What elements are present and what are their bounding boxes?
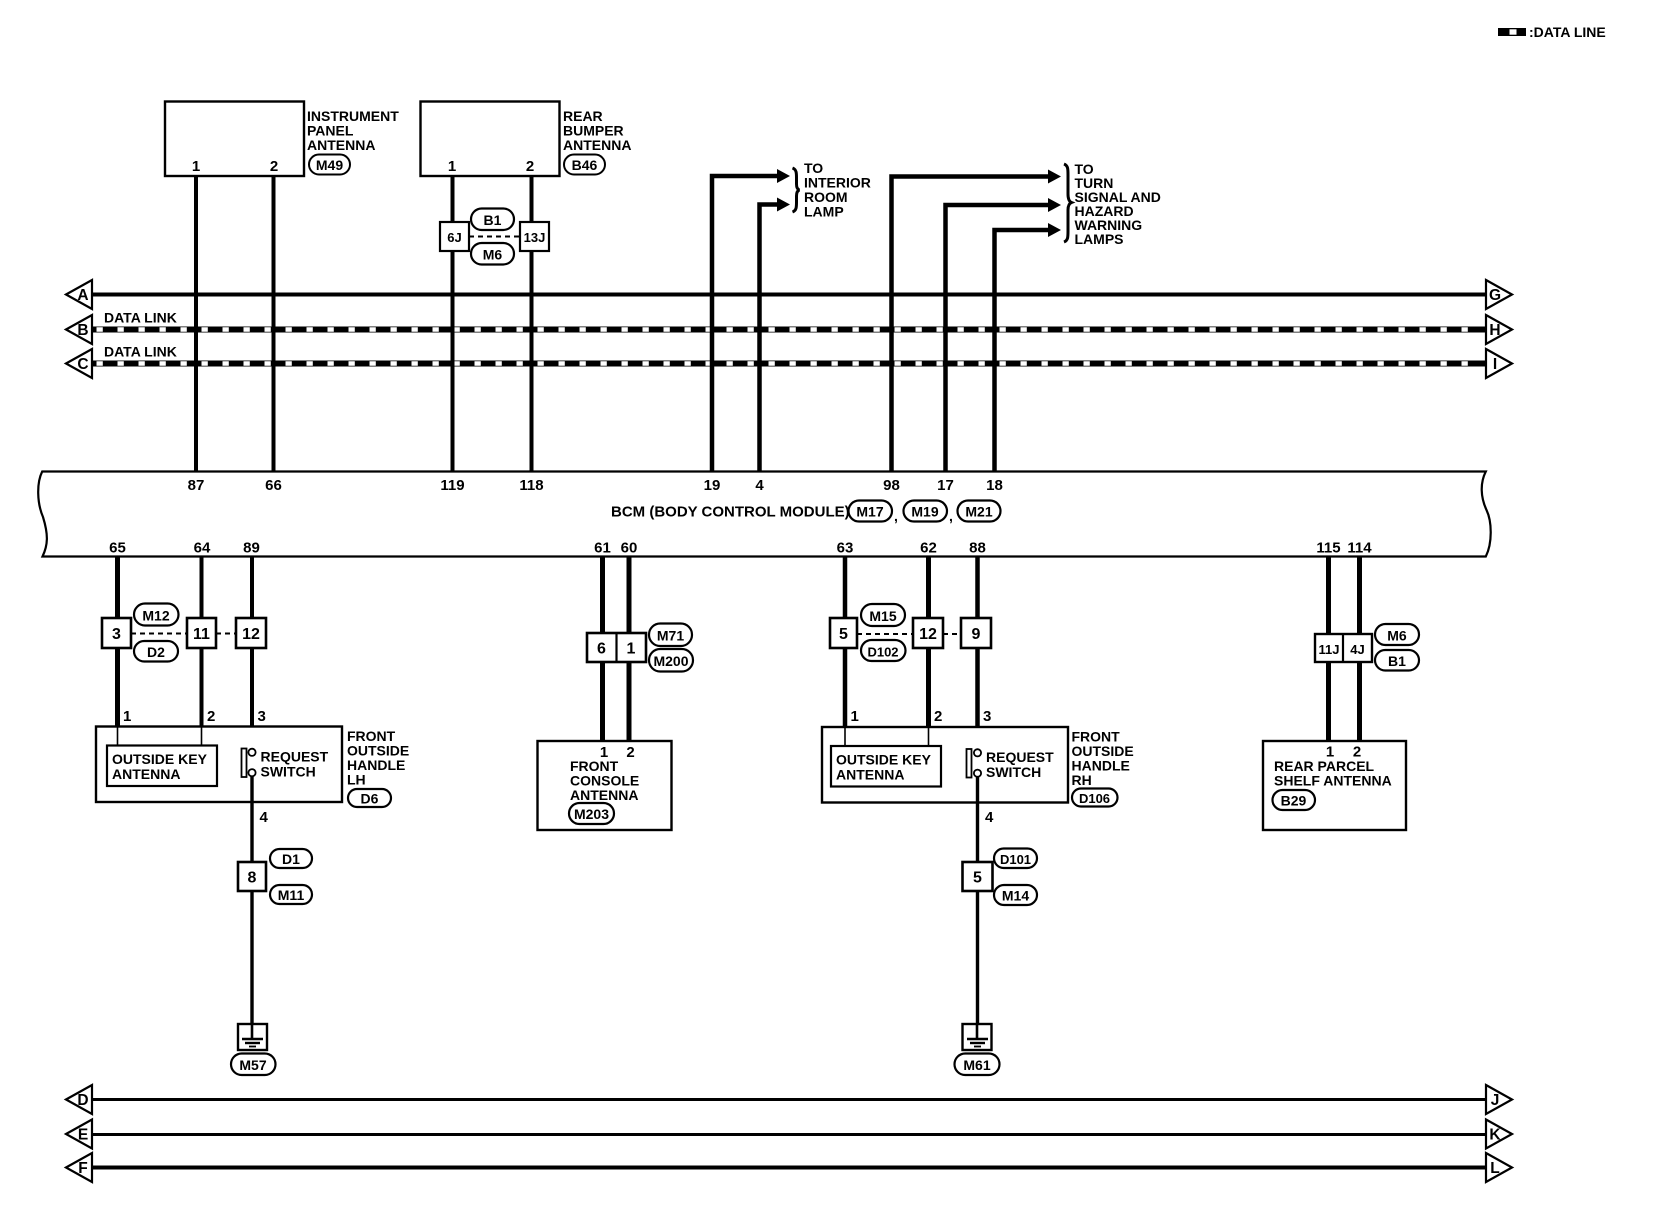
legend data-line symbol: [1498, 28, 1526, 36]
svg-text:13J: 13J: [524, 230, 546, 245]
wire BCM pin 60 to console antenna pin 2: [627, 557, 632, 743]
label FRONT OUTSIDE HANDLE RH: [1072, 729, 1134, 789]
wire BCM pin 19 to interior room lamp: [712, 169, 790, 472]
wire B46 pin1 to BCM pin 119: [451, 176, 455, 472]
svg-text:B1: B1: [1388, 653, 1406, 669]
svg-text:REQUEST: REQUEST: [261, 749, 329, 765]
svg-text:M12: M12: [142, 608, 169, 624]
connector D6: [348, 789, 391, 807]
connector M17: [849, 501, 893, 522]
svg-text:OUTSIDE KEY: OUTSIDE KEY: [112, 751, 208, 767]
connector B1: [1375, 650, 1419, 671]
module BCM body control module: [38, 472, 1491, 557]
svg-text:118: 118: [519, 477, 543, 494]
connector M203: [569, 803, 614, 824]
svg-text:D106: D106: [1079, 791, 1110, 806]
connector M6: [471, 243, 514, 265]
svg-text:E: E: [78, 1127, 88, 1144]
connector M6: [1375, 624, 1419, 645]
svg-text:6: 6: [597, 641, 606, 658]
svg-text:4: 4: [260, 809, 269, 826]
node D arrow: [66, 1085, 92, 1114]
svg-text:DATA LINK: DATA LINK: [104, 344, 177, 360]
svg-text:119: 119: [440, 477, 464, 494]
svg-text:2: 2: [626, 744, 634, 761]
bus line D-J: [91, 1098, 1487, 1101]
svg-text:M200: M200: [653, 653, 688, 669]
svg-text:11: 11: [193, 626, 210, 643]
connector M200: [649, 649, 693, 672]
svg-text:SHELF ANTENNA: SHELF ANTENNA: [1274, 773, 1392, 789]
svg-text:I: I: [1493, 356, 1497, 373]
dashed link 5 to 12: [857, 633, 913, 635]
svg-text:ANTENNA: ANTENNA: [307, 137, 375, 153]
wire M49 pin1 to BCM pin 87: [194, 176, 198, 472]
wire BCM pin 98 to turn signal lamps: [892, 170, 1062, 472]
svg-text:SWITCH: SWITCH: [261, 764, 316, 780]
svg-text:L: L: [1490, 1160, 1499, 1177]
front outside handle RH box: [822, 727, 1068, 803]
svg-text:LAMP: LAMP: [804, 204, 844, 220]
svg-text:9: 9: [972, 626, 981, 643]
svg-text:98: 98: [883, 477, 900, 494]
svg-text:G: G: [1489, 287, 1501, 304]
ground M61: [963, 1024, 992, 1050]
svg-text:2: 2: [207, 708, 215, 725]
svg-text:4: 4: [985, 809, 994, 826]
svg-text:12: 12: [242, 626, 260, 643]
node K arrow: [1486, 1120, 1512, 1149]
connector M71: [649, 624, 692, 647]
wire pin1 stub into antenna RH: [844, 728, 846, 747]
node J arrow: [1486, 1085, 1512, 1114]
svg-text:18: 18: [986, 477, 1003, 494]
wire M49 pin2 to BCM pin 66: [272, 176, 276, 472]
svg-text:115: 115: [1316, 540, 1340, 557]
bus line B-H data line: [91, 327, 1487, 333]
svg-text:61: 61: [594, 540, 611, 557]
svg-text:2: 2: [934, 708, 942, 725]
svg-text:DATA LINK: DATA LINK: [104, 310, 177, 326]
svg-text:B46: B46: [572, 157, 598, 173]
svg-text:3: 3: [112, 626, 121, 643]
svg-text:11J: 11J: [1319, 642, 1340, 657]
svg-text:62: 62: [920, 540, 937, 557]
svg-text:RH: RH: [1072, 772, 1092, 788]
svg-text:8: 8: [248, 870, 257, 887]
svg-text:1: 1: [448, 158, 456, 175]
bus line F-L: [91, 1166, 1487, 1170]
bus line E-K: [91, 1133, 1487, 1136]
wire BCM pin 62 to RH key antenna pin 2: [926, 557, 931, 729]
wire B46 pin2 to BCM pin 118: [530, 176, 534, 472]
connector M12: [134, 604, 179, 626]
svg-text:17: 17: [937, 477, 954, 494]
svg-text:M203: M203: [574, 806, 609, 822]
connector M11: [270, 885, 312, 904]
node B arrow: [66, 315, 92, 344]
connector B29: [1273, 790, 1316, 810]
front outside handle LH box: [96, 727, 342, 803]
request switch RH: [967, 749, 982, 778]
instrument panel antenna M49 box: [165, 102, 304, 177]
svg-text:D: D: [77, 1092, 88, 1109]
svg-text:1: 1: [192, 158, 200, 175]
wire pin2 stub into antenna: [201, 727, 203, 746]
wire RH switch to pin 4: [976, 777, 979, 862]
wire BCM pin 89 to LH request switch pin 3: [250, 557, 254, 750]
connector M21: [958, 501, 1001, 522]
svg-text:D101: D101: [1000, 852, 1031, 867]
svg-text:J: J: [1491, 1092, 1500, 1109]
connector M61: [955, 1054, 1000, 1076]
dashed link 3 to 11: [131, 633, 187, 635]
svg-text:M14: M14: [1002, 888, 1029, 904]
svg-text:5: 5: [839, 626, 848, 643]
svg-text:D102: D102: [867, 645, 898, 660]
dashed link 11 to 12: [216, 633, 236, 635]
label REQUEST SWITCH LH: [261, 749, 329, 780]
connector D2: [134, 641, 178, 662]
connector B46: [564, 155, 605, 175]
connector 11J-4J joint: [1315, 634, 1372, 662]
connector 5: [830, 618, 857, 648]
connector 8: [238, 862, 266, 891]
svg-text:63: 63: [837, 540, 854, 557]
svg-text:114: 114: [1347, 540, 1372, 557]
svg-text:2: 2: [526, 158, 534, 175]
svg-text:M17: M17: [856, 504, 883, 520]
wire connector 8 to ground M57: [250, 891, 253, 1024]
connector 3: [102, 618, 131, 648]
svg-text:1: 1: [851, 708, 859, 725]
node A arrow: [66, 280, 92, 309]
svg-text:4: 4: [755, 477, 764, 494]
ground M57: [238, 1024, 267, 1050]
node G arrow: [1486, 280, 1512, 309]
svg-text:LAMPS: LAMPS: [1075, 231, 1124, 247]
svg-text::DATA LINE: :DATA LINE: [1529, 24, 1606, 40]
svg-text:C: C: [77, 356, 88, 373]
connector 12 RH: [913, 618, 943, 648]
svg-text:65: 65: [109, 540, 126, 557]
connector D1: [270, 849, 312, 868]
node I arrow: [1486, 349, 1512, 378]
svg-text:87: 87: [188, 477, 205, 494]
rear parcel shelf antenna B29 box: [1263, 741, 1406, 830]
svg-text:M49: M49: [316, 157, 343, 173]
svg-text:,: ,: [949, 508, 953, 524]
wire BCM pin 18 to turn signal lamps: [995, 223, 1062, 472]
svg-text:M6: M6: [483, 247, 503, 263]
svg-text:M6: M6: [1387, 628, 1407, 644]
node C arrow: [66, 349, 92, 378]
front console antenna M203 box: [538, 741, 672, 830]
svg-text:M11: M11: [278, 887, 305, 903]
wire LH switch to pin 4: [250, 776, 253, 862]
wire pin1 stub into antenna: [117, 727, 119, 746]
label REQUEST SWITCH RH: [986, 749, 1054, 780]
svg-text:1: 1: [123, 708, 131, 725]
svg-text:ANTENNA: ANTENNA: [112, 766, 180, 782]
svg-text:REQUEST: REQUEST: [986, 749, 1054, 765]
wire BCM pin 114 to parcel antenna pin 2: [1357, 557, 1362, 743]
label FRONT OUTSIDE HANDLE LH: [347, 728, 409, 788]
svg-text:4J: 4J: [1350, 642, 1364, 657]
svg-text:M19: M19: [911, 504, 938, 520]
dashed link 12 to 9: [943, 633, 961, 635]
connector 11: [187, 618, 216, 648]
svg-text:66: 66: [265, 477, 282, 494]
svg-text:3: 3: [258, 708, 266, 725]
connector D102: [861, 640, 906, 661]
rear bumper antenna B46 box: [421, 102, 560, 177]
wire pin2 stub into antenna RH: [928, 728, 930, 747]
svg-text:BCM (BODY CONTROL MODULE): BCM (BODY CONTROL MODULE): [611, 504, 850, 521]
connector B1: [471, 209, 514, 231]
svg-text:D1: D1: [282, 851, 300, 867]
connector 9: [961, 618, 991, 648]
label INSTRUMENT PANEL ANTENNA: [307, 108, 399, 153]
svg-text:ANTENNA: ANTENNA: [563, 137, 631, 153]
svg-text:ANTENNA: ANTENNA: [570, 787, 638, 803]
brace turn signal lamps: [1064, 164, 1072, 242]
connector 13J: [520, 222, 549, 251]
connector 6-1 joint: [587, 633, 646, 662]
svg-text:SWITCH: SWITCH: [986, 764, 1041, 780]
svg-text:B29: B29: [1281, 793, 1307, 809]
svg-text:12: 12: [919, 626, 937, 643]
svg-text:6J: 6J: [447, 230, 461, 245]
connector M57: [231, 1054, 276, 1076]
wire connector 5 to ground M61: [976, 891, 979, 1024]
connector 12: [236, 618, 266, 648]
svg-text:LH: LH: [347, 772, 366, 788]
connector 5 RH: [963, 862, 993, 891]
svg-text:D6: D6: [361, 791, 379, 807]
svg-text:M71: M71: [657, 628, 684, 644]
node H arrow: [1486, 315, 1512, 344]
svg-text:60: 60: [621, 540, 638, 557]
outside key antenna RH box: [831, 746, 941, 787]
wire BCM pin 17 to turn signal lamps: [946, 198, 1062, 472]
svg-text:5: 5: [973, 870, 982, 887]
svg-text:88: 88: [969, 540, 986, 557]
wire BCM pin 88 to RH request switch pin 3: [975, 557, 980, 750]
bus line A-G solid: [91, 293, 1487, 297]
connector D106: [1072, 789, 1118, 807]
brace interior room lamp: [793, 168, 800, 212]
svg-text:2: 2: [270, 158, 278, 175]
node L arrow: [1486, 1153, 1512, 1182]
label TO INTERIOR ROOM LAMP: [804, 160, 871, 220]
connector M14: [994, 885, 1037, 905]
wire BCM pin 61 to console antenna pin 1: [600, 557, 605, 743]
node F arrow: [66, 1153, 92, 1182]
wire BCM pin 4 to interior room lamp: [760, 198, 791, 472]
svg-text:K: K: [1489, 1127, 1501, 1144]
svg-text:M15: M15: [869, 608, 896, 624]
svg-text:H: H: [1489, 322, 1500, 339]
svg-text:19: 19: [704, 477, 721, 494]
svg-text:3: 3: [983, 708, 991, 725]
wire BCM pin 64 to LH key antenna pin 2: [200, 557, 204, 728]
dashed link 6J to 13J: [469, 236, 520, 238]
connector 6J: [440, 222, 469, 251]
connector M15: [861, 604, 905, 626]
svg-text:ANTENNA: ANTENNA: [836, 767, 904, 783]
node E arrow: [66, 1120, 92, 1149]
wire BCM pin 63 to RH key antenna pin 1: [843, 557, 848, 729]
wire BCM pin 65 to LH key antenna pin 1: [115, 557, 120, 728]
svg-text:,: ,: [894, 508, 898, 524]
svg-text:B: B: [77, 322, 88, 339]
svg-text:D2: D2: [147, 644, 165, 660]
wire BCM pin 115 to parcel antenna pin 1: [1326, 557, 1331, 743]
svg-text:A: A: [77, 287, 88, 304]
outside key antenna LH box: [107, 746, 217, 787]
connector M49: [309, 155, 350, 175]
svg-text:M21: M21: [965, 504, 992, 520]
label TO TURN SIGNAL AND HAZARD WARNING LAMPS: [1075, 161, 1161, 247]
connector M19: [904, 501, 948, 522]
svg-text:OUTSIDE KEY: OUTSIDE KEY: [836, 752, 932, 768]
label REAR BUMPER ANTENNA: [563, 108, 631, 153]
svg-text:M57: M57: [239, 1057, 266, 1073]
svg-text:M61: M61: [963, 1057, 990, 1073]
connector D101: [994, 849, 1037, 869]
svg-text:B1: B1: [484, 212, 502, 228]
svg-text:89: 89: [243, 540, 260, 557]
svg-text:F: F: [78, 1160, 87, 1177]
svg-text:1: 1: [627, 641, 636, 658]
request switch LH: [242, 749, 256, 778]
svg-text:64: 64: [194, 540, 211, 557]
bus line C-I data line: [91, 361, 1487, 367]
